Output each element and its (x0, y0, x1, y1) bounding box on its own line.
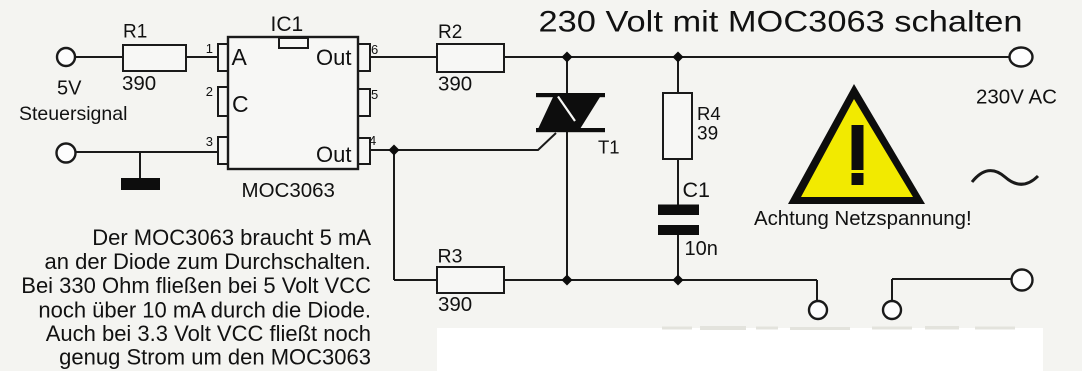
triac divider sliver (558, 97, 575, 122)
svg-text:R2: R2 (438, 22, 462, 43)
capacitor C1 plate top (658, 205, 699, 216)
triac top bar (536, 93, 605, 97)
svg-text:5: 5 (371, 87, 378, 102)
AC sine symbol (972, 171, 1038, 185)
svg-text:an der Diode zum Durchschalten: an der Diode zum Durchschalten. (45, 249, 372, 274)
svg-text:230V AC: 230V AC (976, 86, 1057, 109)
svg-text:Auch bei 3.3 Volt VCC fließt n: Auch bei 3.3 Volt VCC fließt noch (46, 321, 371, 346)
warning triangle (788, 84, 925, 204)
wire switch terminal right up (891, 279, 893, 301)
pin 4 box (357, 138, 370, 164)
svg-text:noch über 10 mA durch die Diod: noch über 10 mA durch die Diode. (38, 298, 371, 323)
svg-text:Steuersignal: Steuersignal (19, 103, 127, 125)
wire IC pin 4 to gate node (370, 149, 394, 151)
wire IC pin 6 to R2 (370, 56, 437, 58)
node junction top right (672, 51, 683, 62)
triac body triangles (538, 97, 600, 129)
IC1 body (228, 37, 358, 169)
wire down to switch terminal left (816, 280, 818, 301)
ground stub (139, 152, 141, 178)
resistor R1 (123, 45, 186, 71)
svg-text:3: 3 (206, 134, 213, 149)
resistor R2 (437, 44, 504, 72)
terminal 230V top right (1010, 48, 1033, 67)
terminal switch left (809, 301, 827, 319)
svg-text:genug Strom um den MOC3063: genug Strom um den MOC3063 (59, 345, 371, 370)
node junction bottom left (561, 274, 572, 285)
svg-text:R3: R3 (438, 246, 463, 268)
terminal bottom right (1012, 270, 1033, 291)
svg-text:Bei 330 Ohm fließen bei 5 Volt: Bei 330 Ohm fließen bei 5 Volt VCC (21, 273, 371, 298)
svg-text:390: 390 (122, 72, 156, 95)
svg-text:R1: R1 (123, 22, 147, 43)
warning triangle yellow fill (801, 99, 913, 197)
pin 6 box (357, 44, 370, 71)
svg-text:T1: T1 (598, 137, 620, 158)
warning exclamation dot (852, 173, 864, 185)
terminal switch right (883, 301, 901, 319)
svg-text:A: A (232, 44, 248, 70)
svg-text:6: 6 (371, 42, 378, 57)
svg-text:C1: C1 (683, 178, 710, 202)
node junction gate (388, 144, 399, 155)
note text block (21, 225, 371, 370)
pin 2 box (218, 87, 229, 116)
svg-text:IC1: IC1 (271, 13, 304, 36)
svg-text:R4: R4 (697, 103, 721, 124)
triac bottom bar (536, 128, 605, 132)
svg-text:39: 39 (697, 124, 718, 145)
svg-text:390: 390 (438, 73, 472, 96)
bottom rail R3 to switch (504, 279, 817, 281)
wire top rail to R4 (677, 57, 679, 93)
ground (121, 178, 160, 190)
warning exclamation bar (852, 125, 864, 170)
triac T1 (536, 93, 605, 132)
pin 3 box (218, 137, 229, 164)
wire Steuersignal terminal to IC pin 3 (76, 151, 220, 153)
wire C1 to bottom rail (677, 235, 679, 280)
svg-text:4: 4 (369, 133, 376, 148)
IC notch (279, 38, 308, 48)
svg-text:1: 1 (206, 41, 213, 56)
svg-text:5V: 5V (57, 78, 82, 100)
resistor R3 (437, 267, 504, 293)
svg-text:390: 390 (438, 293, 472, 316)
white panel bottom right (437, 328, 1043, 371)
node junction bottom right (672, 274, 683, 285)
svg-text:Out: Out (316, 142, 351, 167)
pin 5 box (357, 89, 370, 116)
svg-text:Out: Out (316, 45, 351, 70)
pin 1 box (218, 44, 229, 71)
wire R1 to IC pin 1 (186, 56, 220, 58)
wire gate node down to R3 (393, 150, 395, 280)
wire node to R3 (394, 279, 437, 281)
wire to bottom right terminal (892, 278, 1011, 280)
wire R4 to C1 (677, 159, 679, 205)
wire top rail down to triac (566, 57, 568, 97)
triac gate wire (394, 133, 556, 150)
svg-text:Achtung Netzspannung!: Achtung Netzspannung! (754, 208, 972, 230)
svg-text:C: C (232, 91, 249, 117)
node junction top left (561, 51, 572, 62)
svg-text:10n: 10n (685, 238, 718, 260)
capacitor C1 plate bottom (658, 225, 699, 235)
ghost cropped text row (662, 326, 1015, 330)
wire 5V terminal to R1 (75, 56, 123, 58)
terminal 5V (57, 48, 75, 66)
wire triac to bottom rail (566, 131, 568, 280)
top rail R2 to right terminal (504, 56, 1011, 58)
svg-text:230 Volt mit MOC3063 schalten: 230 Volt mit MOC3063 schalten (539, 6, 1023, 39)
resistor R4 (663, 93, 692, 159)
svg-text:2: 2 (206, 84, 213, 99)
svg-text:MOC3063: MOC3063 (242, 179, 335, 202)
svg-text:Der MOC3063 braucht 5 mA: Der MOC3063 braucht 5 mA (92, 225, 371, 250)
terminal Steuersignal (57, 144, 76, 163)
